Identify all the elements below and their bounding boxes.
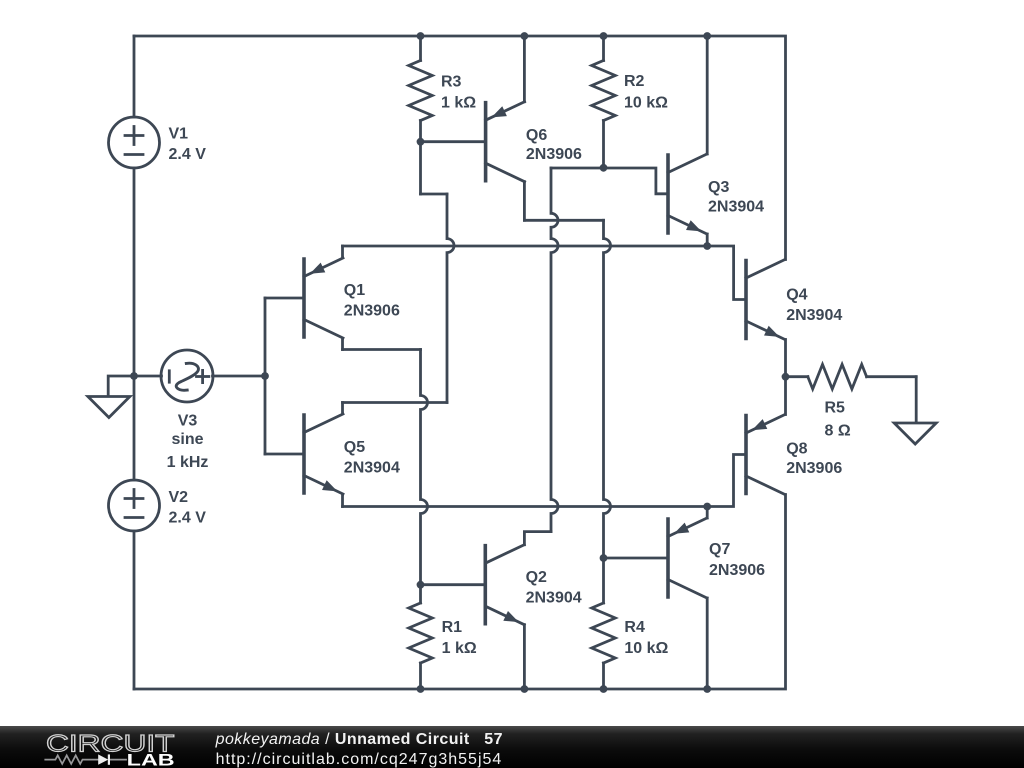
svg-text:R3: R3 [441,74,462,91]
svg-text:2N3904: 2N3904 [344,460,400,477]
svg-text:Q4: Q4 [786,287,807,304]
svg-text:R4: R4 [624,619,645,636]
svg-text:V2: V2 [169,489,189,506]
svg-text:2N3906: 2N3906 [786,460,842,477]
svg-text:1 kHz: 1 kHz [167,454,209,471]
svg-text:2N3904: 2N3904 [526,590,582,607]
svg-text:R1: R1 [442,619,463,636]
svg-text:10 kΩ: 10 kΩ [624,95,668,112]
svg-text:2N3906: 2N3906 [526,146,582,163]
svg-text:sine: sine [171,431,203,448]
svg-text:2.4 V: 2.4 V [169,146,207,163]
svg-text:Q7: Q7 [709,541,730,558]
svg-text:Q3: Q3 [708,179,729,196]
svg-text:Q2: Q2 [526,569,547,586]
svg-text:LAB: LAB [127,751,175,768]
svg-text:2N3906: 2N3906 [709,562,765,579]
svg-text:8 Ω: 8 Ω [825,422,851,439]
svg-text:V3: V3 [178,413,198,430]
svg-text:2N3906: 2N3906 [344,303,400,320]
svg-text:R2: R2 [624,73,645,90]
svg-text:10 kΩ: 10 kΩ [624,640,668,657]
svg-text:1 kΩ: 1 kΩ [442,640,477,657]
svg-text:R5: R5 [825,400,846,417]
svg-text:Q6: Q6 [526,127,547,144]
svg-text:2.4 V: 2.4 V [169,510,207,527]
svg-text:V1: V1 [169,126,189,143]
svg-text:2N3904: 2N3904 [708,199,764,216]
svg-text:Q5: Q5 [344,439,365,456]
svg-text:Q1: Q1 [344,282,365,299]
svg-text:2N3904: 2N3904 [786,307,842,324]
svg-text:1 kΩ: 1 kΩ [441,95,476,112]
svg-text:Q8: Q8 [786,441,807,458]
